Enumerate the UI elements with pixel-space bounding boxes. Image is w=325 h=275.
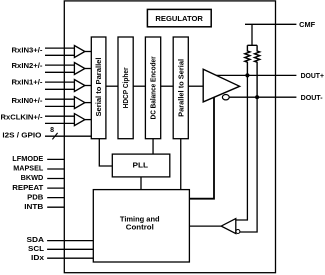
svg-text:RxIN3+/-: RxIN3+/- xyxy=(12,46,44,55)
svg-text:I2S / GPIO: I2S / GPIO xyxy=(2,131,41,140)
wire B1-B2 xyxy=(106,85,118,87)
svg-text:IDx: IDx xyxy=(31,253,44,262)
wire I2S/GPIO bus xyxy=(45,135,91,137)
input buffer A4 RxIN0 xyxy=(74,97,91,109)
block B4 Parallel to Serial xyxy=(173,37,188,139)
stub INTB xyxy=(47,206,64,208)
svg-text:SCL: SCL xyxy=(28,244,45,253)
driver inversion bubble xyxy=(222,95,229,100)
svg-text:Control: Control xyxy=(126,222,154,231)
wire feedback buffer to Timing xyxy=(189,225,221,227)
svg-text:DOUT-: DOUT- xyxy=(301,93,324,102)
stub PDB xyxy=(47,197,64,199)
block B1 Serial to Parallel xyxy=(91,37,106,139)
block B2 HDCP Cipher xyxy=(118,37,133,139)
wire B4 to Timing top xyxy=(180,139,182,190)
svg-text:8: 8 xyxy=(50,127,54,134)
svg-text:REPEAT: REPEAT xyxy=(12,183,44,192)
feedback buffer triangle xyxy=(221,219,236,234)
svg-text:RxCLKIN+/-: RxCLKIN+/- xyxy=(1,113,44,122)
svg-text:DOUT+: DOUT+ xyxy=(301,71,324,80)
svg-text:RxIN0+/-: RxIN0+/- xyxy=(12,96,44,105)
wire RxCLKIN- xyxy=(45,122,74,124)
wire B2-B3 xyxy=(133,85,145,87)
svg-text:MAPSEL: MAPSEL xyxy=(13,164,44,173)
resistor R2 xyxy=(255,45,260,97)
svg-text:PLL: PLL xyxy=(133,160,149,169)
wire feedback from DOUT- node xyxy=(240,97,257,232)
stub LFMODE xyxy=(47,158,64,160)
input buffer A1 RxIN3 xyxy=(74,46,91,58)
svg-text:SDA: SDA xyxy=(27,235,45,244)
svg-text:CMF: CMF xyxy=(299,20,316,29)
svg-text:RxIN2+/-: RxIN2+/- xyxy=(12,61,44,70)
svg-text:Serial to Parallel: Serial to Parallel xyxy=(94,58,103,117)
wire B1 to PLL left xyxy=(99,139,112,166)
wire B4 to output driver xyxy=(188,85,203,87)
bus slash mark xyxy=(52,133,57,140)
wire RxIN1+ xyxy=(45,81,74,83)
wire CMF drop to resistors xyxy=(247,24,257,45)
wire RxIN1- xyxy=(45,88,74,90)
Timing and Control box xyxy=(93,190,189,262)
wire SCL xyxy=(47,248,93,250)
wire PLL to Timing xyxy=(140,177,142,190)
svg-text:DC Balance Encoder: DC Balance Encoder xyxy=(149,56,158,119)
wire RxIN2- xyxy=(45,71,74,73)
resistor R1 xyxy=(245,45,250,75)
wire RxIN3- xyxy=(45,54,74,56)
wire SDA xyxy=(47,240,93,242)
svg-text:LFMODE: LFMODE xyxy=(12,154,43,163)
wire feedback from DOUT+ node xyxy=(236,75,248,220)
wire RxIN3+ xyxy=(45,47,74,49)
wire RxCLKIN+ xyxy=(45,115,74,117)
wire DOUT+ line xyxy=(216,74,296,76)
svg-text:RxIN1+/-: RxIN1+/- xyxy=(12,78,44,87)
svg-text:HDCP Cipher: HDCP Cipher xyxy=(121,67,130,108)
regulator block xyxy=(147,9,211,26)
wire RxIN2+ xyxy=(45,64,74,66)
input buffer A2 RxIN2 xyxy=(74,63,91,75)
svg-text:BKWD: BKWD xyxy=(21,173,44,182)
wire driver bias to Timing xyxy=(189,97,214,198)
output driver triangle xyxy=(203,69,239,102)
svg-text:Parallel to Serial: Parallel to Serial xyxy=(176,59,185,117)
feedback buffer bubble xyxy=(236,230,240,234)
wire RxIN0+ xyxy=(45,98,74,100)
outer chip boundary box xyxy=(64,1,275,273)
wire RxIN0- xyxy=(45,105,74,107)
junction node DOUT+ xyxy=(245,73,249,77)
input buffer A3 RxIN1 xyxy=(74,80,91,92)
wire IDx xyxy=(47,257,93,259)
svg-text:INTB: INTB xyxy=(24,202,43,211)
wire B3 to PLL top xyxy=(152,139,154,154)
wire DOUT- line xyxy=(226,96,296,98)
svg-text:REGULATOR: REGULATOR xyxy=(155,14,203,23)
stub BKWD xyxy=(47,178,64,180)
stub REPEAT xyxy=(47,187,64,189)
wire B3-B4 xyxy=(161,85,174,87)
block B3 DC Balance Encoder xyxy=(145,37,160,139)
junction node DOUT- xyxy=(255,95,259,99)
input buffer A5 RxCLKIN xyxy=(74,114,91,126)
svg-text:PDB: PDB xyxy=(27,192,43,201)
stub MAPSEL xyxy=(47,168,64,170)
wire CMF rail xyxy=(245,23,296,25)
PLL box xyxy=(112,154,170,177)
